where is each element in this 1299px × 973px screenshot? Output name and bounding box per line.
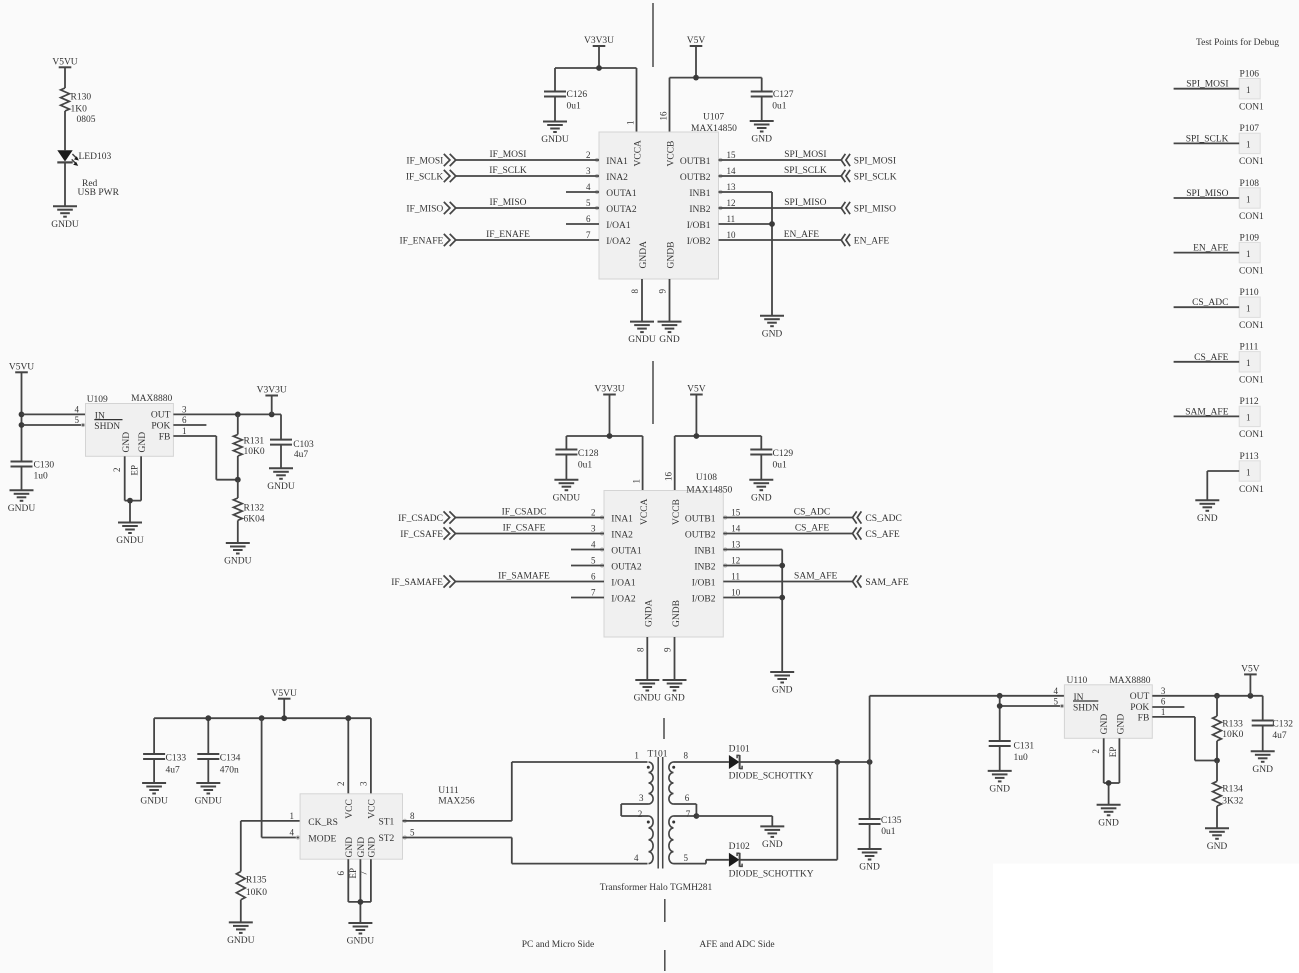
svg-text:IF_ENAFE: IF_ENAFE — [399, 237, 443, 247]
wire GNDB pin 9 — [669, 279, 671, 322]
svg-text:OUTB1: OUTB1 — [680, 157, 711, 167]
svg-text:8: 8 — [635, 647, 645, 652]
node junction — [769, 221, 775, 227]
port IF_MISO — [406, 202, 455, 215]
svg-text:6: 6 — [1161, 696, 1166, 706]
port CS_ADC — [853, 511, 902, 524]
svg-text:6: 6 — [685, 793, 690, 803]
connector P107 CON1 — [1239, 124, 1264, 167]
svg-text:0805: 0805 — [77, 115, 96, 125]
net label SPI_SCLK — [784, 166, 827, 176]
diode D102 DIODE_SCHOTTKY — [729, 842, 814, 879]
connector P110 CON1 — [1239, 288, 1264, 331]
svg-text:MAX14850: MAX14850 — [691, 124, 737, 134]
svg-text:U107: U107 — [703, 113, 724, 123]
svg-text:GND: GND — [664, 694, 685, 704]
svg-text:IF_CSADC: IF_CSADC — [398, 514, 443, 524]
pin stub I/OA2 — [571, 597, 604, 599]
svg-text:R134: R134 — [1222, 784, 1243, 794]
ground GND — [770, 672, 794, 696]
ground GNDU — [8, 490, 36, 514]
label AFE and ADC Side — [699, 940, 774, 950]
wire pin13 to GND — [719, 192, 773, 316]
svg-text:CON1: CON1 — [1239, 157, 1264, 167]
svg-text:CK_RS: CK_RS — [308, 818, 338, 828]
port IF_ENAFE — [399, 234, 455, 247]
node junction — [345, 715, 351, 721]
svg-text:INB1: INB1 — [689, 189, 710, 199]
wire OUT — [1152, 695, 1262, 697]
label transformer — [600, 882, 713, 893]
capacitor C130 — [11, 460, 55, 490]
svg-text:P106: P106 — [1240, 70, 1260, 80]
svg-text:4: 4 — [1054, 686, 1059, 696]
pin stub I/OA1 — [566, 223, 599, 225]
svg-text:EN_AFE: EN_AFE — [854, 237, 890, 247]
pin stub POK — [1152, 706, 1184, 708]
power net V5V — [687, 36, 706, 77]
svg-text:4u7: 4u7 — [166, 766, 181, 776]
svg-text:CON1: CON1 — [1239, 376, 1264, 386]
svg-text:4: 4 — [591, 539, 596, 549]
svg-text:R133: R133 — [1222, 720, 1243, 730]
capacitor C132 — [1252, 696, 1294, 752]
svg-text:D102: D102 — [729, 842, 750, 852]
svg-text:P111: P111 — [1240, 343, 1259, 353]
svg-text:V5V: V5V — [687, 36, 706, 46]
svg-text:CS_AFE: CS_AFE — [1194, 353, 1229, 363]
svg-text:2: 2 — [591, 507, 596, 517]
svg-text:6: 6 — [182, 415, 187, 425]
svg-text:CS_ADC: CS_ADC — [865, 514, 901, 524]
capacitor C134 — [197, 754, 240, 783]
port SAM_AFE — [853, 575, 909, 588]
svg-text:GND: GND — [1252, 765, 1273, 775]
svg-text:13: 13 — [731, 539, 741, 549]
node junction — [235, 477, 241, 483]
svg-text:OUTA2: OUTA2 — [611, 562, 642, 572]
net label EN_AFE — [784, 230, 820, 240]
port SPI_SCLK — [841, 170, 897, 183]
svg-text:7: 7 — [591, 587, 596, 597]
power net V5VU — [272, 689, 297, 718]
ground GNDU — [267, 468, 295, 492]
svg-text:GND: GND — [762, 840, 783, 850]
node junction — [834, 759, 840, 765]
wire — [456, 239, 599, 241]
svg-text:U111: U111 — [438, 786, 459, 796]
net label IF_SAMAFE — [498, 572, 550, 582]
svg-text:IF_CSADC: IF_CSADC — [502, 508, 547, 518]
svg-text:GNDU: GNDU — [140, 797, 168, 807]
ground GND — [1205, 828, 1229, 852]
svg-text:1: 1 — [1246, 249, 1251, 259]
svg-text:8: 8 — [684, 751, 689, 761]
svg-text:U110: U110 — [1067, 676, 1088, 686]
wire — [1207, 471, 1239, 500]
svg-text:3: 3 — [182, 404, 187, 414]
svg-text:7: 7 — [586, 230, 591, 240]
svg-text:IF_MOSI: IF_MOSI — [490, 150, 527, 160]
net label SPI_MOSI — [1186, 80, 1228, 90]
wire — [675, 436, 762, 491]
svg-text:INA1: INA1 — [606, 157, 628, 167]
svg-text:15: 15 — [731, 507, 741, 517]
port SPI_MOSI — [841, 154, 896, 167]
wire — [1174, 306, 1240, 308]
svg-text:GND: GND — [762, 329, 783, 339]
wire SHDN — [22, 423, 86, 426]
connector P108 CON1 — [1239, 179, 1264, 222]
ground GNDU — [628, 322, 656, 346]
svg-text:R131: R131 — [244, 437, 265, 447]
svg-text:GND: GND — [751, 135, 772, 145]
svg-text:INA1: INA1 — [611, 514, 633, 524]
svg-text:1: 1 — [634, 751, 639, 761]
svg-text:GNDU: GNDU — [628, 335, 656, 345]
wire pin5 to D102 — [674, 860, 729, 864]
port SPI_MISO — [841, 202, 896, 215]
svg-text:0u1: 0u1 — [881, 827, 896, 837]
svg-text:1: 1 — [632, 479, 642, 484]
svg-text:5: 5 — [586, 198, 591, 208]
port IF_SCLK — [406, 170, 456, 183]
svg-text:2: 2 — [638, 809, 643, 819]
connector P106 CON1 — [1239, 70, 1264, 113]
svg-text:GNDU: GNDU — [634, 694, 662, 704]
svg-text:3: 3 — [358, 781, 368, 786]
net label IF_MISO — [490, 198, 527, 208]
LED LED103 — [57, 150, 119, 198]
ground GND — [760, 316, 784, 340]
node junction — [1248, 693, 1254, 699]
svg-text:SHDN: SHDN — [1073, 704, 1099, 714]
resistor R134 — [1213, 761, 1244, 829]
svg-text:ST1: ST1 — [378, 818, 394, 828]
wire — [1174, 252, 1240, 254]
svg-text:GND: GND — [368, 837, 378, 858]
port EN_AFE — [841, 234, 889, 247]
svg-text:EN_AFE: EN_AFE — [784, 230, 820, 240]
svg-text:1: 1 — [1246, 140, 1251, 150]
svg-text:OUTB2: OUTB2 — [680, 173, 711, 183]
node junction — [281, 715, 287, 721]
svg-text:VCCB: VCCB — [672, 499, 682, 525]
svg-text:IF_MISO: IF_MISO — [406, 205, 443, 215]
svg-text:EN_AFE: EN_AFE — [1193, 244, 1229, 254]
svg-text:FB: FB — [159, 432, 171, 442]
wire pin13 to GND — [723, 550, 782, 673]
svg-text:IF_SAMAFE: IF_SAMAFE — [391, 578, 443, 588]
node junction — [205, 715, 211, 721]
svg-text:10K0: 10K0 — [244, 447, 265, 457]
svg-text:INA2: INA2 — [606, 173, 628, 183]
net label IF_MOSI — [490, 150, 527, 160]
IC U108 MAX14850 — [591, 472, 741, 653]
pin stub POK — [173, 424, 206, 426]
wire GND/EP pins — [348, 859, 371, 923]
svg-text:5: 5 — [75, 415, 80, 425]
svg-text:5: 5 — [1054, 696, 1059, 706]
svg-text:C126: C126 — [567, 90, 588, 100]
capacitor C133 — [143, 754, 186, 783]
svg-text:FB: FB — [1138, 714, 1150, 724]
svg-text:2: 2 — [586, 150, 591, 160]
svg-text:MODE: MODE — [308, 834, 336, 844]
capacitor C126 — [544, 90, 587, 121]
node junction — [19, 412, 25, 418]
svg-text:GND: GND — [859, 863, 880, 873]
svg-text:IF_ENAFE: IF_ENAFE — [486, 230, 530, 240]
svg-text:VCC: VCC — [345, 799, 355, 819]
svg-text:SPI_MOSI: SPI_MOSI — [784, 150, 826, 160]
wire GNDB pin 9 — [674, 637, 676, 680]
svg-text:CON1: CON1 — [1239, 430, 1264, 440]
svg-text:SPI_MOSI: SPI_MOSI — [1186, 80, 1228, 90]
wire — [456, 581, 605, 583]
svg-text:GND: GND — [345, 837, 355, 858]
svg-text:6: 6 — [586, 214, 591, 224]
wire — [456, 207, 599, 209]
svg-text:4u7: 4u7 — [294, 450, 309, 460]
svg-text:SPI_SCLK: SPI_SCLK — [1186, 134, 1229, 144]
svg-text:DIODE_SCHOTTKY: DIODE_SCHOTTKY — [729, 772, 814, 782]
svg-text:6: 6 — [591, 571, 596, 581]
net label IF_ENAFE — [486, 230, 530, 240]
svg-text:GND: GND — [1100, 714, 1110, 735]
node junction — [269, 412, 275, 418]
ground GNDU — [140, 783, 168, 807]
svg-text:1K0: 1K0 — [71, 105, 88, 115]
svg-text:GNDU: GNDU — [541, 135, 569, 145]
svg-text:V3V3U: V3V3U — [257, 386, 287, 396]
svg-text:C135: C135 — [881, 816, 902, 826]
svg-text:V5VU: V5VU — [272, 689, 297, 699]
svg-text:EP: EP — [129, 465, 139, 476]
ground GND — [658, 322, 682, 346]
svg-text:USB PWR: USB PWR — [78, 188, 120, 198]
svg-text:GND: GND — [138, 432, 148, 453]
node junction — [779, 563, 785, 569]
net label EN_AFE — [1193, 244, 1229, 254]
net label IF_CSADC — [502, 508, 547, 518]
svg-text:V5VU: V5VU — [9, 363, 34, 373]
svg-text:10K0: 10K0 — [1222, 730, 1243, 740]
port IF_SAMAFE — [391, 575, 455, 588]
svg-text:GNDU: GNDU — [195, 797, 223, 807]
ground GND — [988, 771, 1012, 795]
svg-text:R130: R130 — [71, 92, 92, 102]
svg-text:1: 1 — [1246, 413, 1251, 423]
node junction — [1214, 693, 1220, 699]
svg-text:IF_SAMAFE: IF_SAMAFE — [498, 572, 550, 582]
svg-text:1: 1 — [1246, 194, 1251, 204]
svg-text:MAX256: MAX256 — [438, 796, 475, 806]
wire — [1174, 142, 1240, 144]
svg-text:I/OB1: I/OB1 — [692, 578, 716, 588]
node junction — [1214, 758, 1220, 764]
svg-text:D101: D101 — [729, 745, 750, 755]
svg-text:GND: GND — [659, 335, 680, 345]
wire CK_RS — [241, 821, 300, 872]
wire — [719, 175, 842, 177]
svg-text:VCCA: VCCA — [640, 498, 650, 525]
wire IN feed — [870, 696, 1065, 762]
port IF_MOSI — [406, 154, 455, 167]
wire — [64, 111, 66, 150]
node junction — [19, 422, 25, 428]
label PC and Micro Side — [522, 940, 595, 950]
net label CS_AFE — [1194, 353, 1229, 363]
svg-text:I/OA1: I/OA1 — [606, 221, 631, 231]
svg-text:3: 3 — [591, 523, 596, 533]
node junction — [997, 703, 1003, 709]
svg-text:INB2: INB2 — [689, 205, 710, 215]
svg-text:GND: GND — [1098, 818, 1119, 828]
connector P112 CON1 — [1239, 397, 1264, 440]
ground GND — [760, 826, 784, 850]
svg-text:P110: P110 — [1240, 288, 1259, 298]
power net V5V — [687, 385, 706, 436]
svg-text:4: 4 — [290, 828, 295, 838]
svg-text:IF_SCLK: IF_SCLK — [489, 166, 527, 176]
svg-text:U109: U109 — [87, 395, 108, 405]
svg-text:16: 16 — [659, 111, 669, 121]
wire — [719, 223, 773, 225]
svg-text:3: 3 — [1161, 686, 1166, 696]
svg-text:1: 1 — [290, 811, 295, 821]
svg-text:2: 2 — [112, 468, 122, 473]
wire FB — [173, 436, 237, 480]
svg-text:1: 1 — [1246, 358, 1251, 368]
svg-text:8: 8 — [630, 289, 640, 294]
node junction — [259, 715, 265, 721]
connector P113 CON1 — [1239, 452, 1264, 495]
svg-text:2: 2 — [1091, 749, 1101, 754]
svg-text:MAX8880: MAX8880 — [131, 394, 172, 404]
svg-text:2: 2 — [336, 782, 346, 787]
pin stub OUTA1 — [566, 191, 599, 193]
svg-text:MAX14850: MAX14850 — [686, 486, 732, 496]
svg-text:GNDU: GNDU — [8, 504, 36, 514]
svg-text:1: 1 — [1161, 707, 1166, 717]
svg-text:GNDU: GNDU — [227, 936, 255, 946]
net label CS_AFE — [795, 524, 830, 534]
svg-text:1: 1 — [1246, 304, 1251, 314]
svg-text:EP: EP — [348, 868, 358, 879]
svg-text:16: 16 — [664, 472, 674, 482]
ground GNDU — [347, 923, 375, 947]
svg-text:POK: POK — [151, 422, 170, 432]
svg-text:CON1: CON1 — [1239, 485, 1264, 495]
wire — [719, 239, 842, 241]
svg-text:PC and Micro Side: PC and Micro Side — [522, 940, 595, 950]
ground GND — [749, 480, 773, 504]
svg-text:I/OB2: I/OB2 — [692, 594, 716, 604]
svg-text:GND: GND — [989, 785, 1010, 795]
svg-text:SPI_SCLK: SPI_SCLK — [784, 166, 827, 176]
svg-text:15: 15 — [727, 150, 737, 160]
capacitor C129 — [750, 449, 793, 480]
svg-text:V5VU: V5VU — [52, 58, 77, 68]
wire D102 riser — [740, 762, 838, 860]
svg-text:10K0: 10K0 — [246, 888, 267, 898]
svg-text:LED103: LED103 — [79, 152, 112, 162]
IC U109 MAX8880 — [75, 394, 188, 475]
diode D101 DIODE_SCHOTTKY — [729, 745, 814, 782]
net label SAM_AFE — [794, 572, 837, 582]
svg-text:I/OB2: I/OB2 — [687, 237, 711, 247]
ground GND — [1195, 500, 1219, 524]
port CS_AFE — [853, 527, 900, 540]
svg-text:IF_MISO: IF_MISO — [490, 198, 527, 208]
svg-text:SAM_AFE: SAM_AFE — [865, 578, 908, 588]
svg-text:INB1: INB1 — [694, 546, 715, 556]
svg-text:GNDA: GNDA — [645, 599, 655, 627]
svg-text:8: 8 — [410, 811, 415, 821]
svg-text:R132: R132 — [244, 504, 265, 514]
ground GNDU — [51, 206, 79, 230]
svg-text:AFE and ADC Side: AFE and ADC Side — [699, 940, 774, 950]
node junction — [694, 813, 700, 819]
svg-text:13: 13 — [727, 182, 737, 192]
svg-text:OUTB1: OUTB1 — [685, 514, 716, 524]
net label SPI_MISO — [1186, 189, 1228, 199]
ground GNDU — [195, 783, 223, 807]
power net V3V3U — [584, 36, 614, 68]
svg-text:4: 4 — [75, 404, 80, 414]
svg-text:OUTA1: OUTA1 — [606, 189, 637, 199]
connector P111 CON1 — [1239, 343, 1264, 386]
wire — [719, 207, 842, 209]
svg-text:C128: C128 — [578, 449, 599, 459]
wire FB — [1152, 717, 1217, 761]
svg-text:1: 1 — [182, 426, 187, 436]
svg-text:GND: GND — [122, 432, 132, 453]
node junction — [127, 498, 133, 504]
wire to GND — [696, 816, 772, 826]
capacitor C127 — [751, 90, 794, 121]
svg-text:OUTA1: OUTA1 — [611, 546, 642, 556]
svg-text:OUTB2: OUTB2 — [685, 530, 716, 540]
capacitor C131 — [989, 741, 1035, 771]
svg-text:6K04: 6K04 — [244, 515, 265, 525]
svg-text:C127: C127 — [773, 90, 794, 100]
capacitor C128 — [555, 449, 598, 480]
svg-text:I/OB1: I/OB1 — [687, 221, 711, 231]
svg-text:6: 6 — [336, 871, 346, 876]
svg-text:OUT: OUT — [1130, 692, 1150, 702]
power net V5V — [1241, 665, 1260, 696]
svg-text:CS_ADC: CS_ADC — [794, 508, 830, 518]
node V3V3U junction — [607, 433, 613, 439]
wire V5VU bus — [154, 718, 371, 794]
wire — [1174, 415, 1240, 417]
svg-text:GND: GND — [357, 837, 367, 858]
svg-text:0u1: 0u1 — [567, 101, 582, 111]
header text — [1196, 37, 1279, 48]
wire GND/EP pins — [1104, 738, 1120, 805]
svg-text:GNDU: GNDU — [51, 220, 79, 230]
wire — [670, 78, 762, 132]
wire — [723, 581, 852, 583]
svg-text:5: 5 — [684, 853, 689, 863]
svg-text:0u1: 0u1 — [773, 461, 788, 471]
svg-text:GNDU: GNDU — [267, 482, 295, 492]
svg-text:GNDU: GNDU — [553, 493, 581, 503]
wire — [723, 565, 782, 567]
svg-text:R135: R135 — [246, 875, 267, 885]
